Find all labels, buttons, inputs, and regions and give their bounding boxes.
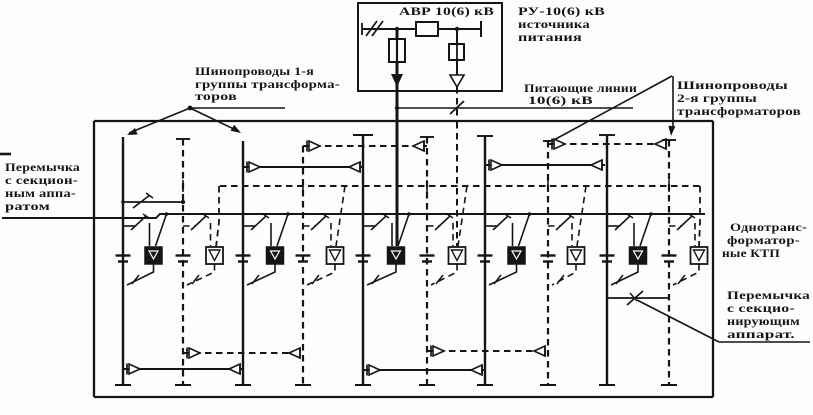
section jumper J2 with switch bbox=[608, 291, 668, 305]
label АВР 10(6) кВ bbox=[399, 4, 494, 18]
LV link below T4 bbox=[307, 264, 335, 285]
svg-text:ратом: ратом bbox=[5, 199, 50, 213]
termination bars riser 4 bbox=[296, 256, 311, 262]
switch arm unit 8 bbox=[548, 214, 574, 246]
busbar run group2 right (dashed) bbox=[548, 139, 669, 150]
svg-text:Шинопроводы 1-я: Шинопроводы 1-я bbox=[195, 64, 314, 78]
feeder 2 drop (dashed) bbox=[456, 87, 458, 246]
transformer T6 (outline) bbox=[449, 247, 466, 264]
termination bars riser 10 bbox=[662, 256, 677, 262]
tie drop to transformer 7 bbox=[519, 212, 532, 246]
feeder 2 drop upper bbox=[456, 29, 458, 44]
stray dash left margin bbox=[0, 153, 11, 156]
dashed group-2 tie line bbox=[220, 185, 700, 187]
node at feeder 1 tap bbox=[395, 27, 399, 31]
svg-text:Шинопроводы: Шинопроводы bbox=[677, 78, 789, 92]
svg-text:2-я группы: 2-я группы bbox=[677, 91, 758, 105]
svg-text:Перемычка: Перемычка bbox=[727, 288, 810, 302]
transformer T8 (outline) bbox=[568, 247, 585, 264]
dashed tie stub at riser 10 bbox=[668, 180, 670, 192]
dashed tie stub at riser 8 bbox=[547, 180, 549, 192]
transformer T5 (closed KTP, filled) bbox=[388, 247, 405, 264]
termination bars riser 2 bbox=[176, 256, 191, 262]
termination bars riser 1 bbox=[116, 256, 131, 262]
section jumper J1 with switch bbox=[121, 193, 185, 208]
bottom busbar run solid right bbox=[363, 365, 485, 376]
riser 9 top T-bar bbox=[599, 134, 615, 136]
dashed tie drop to transformer 6 bbox=[458, 186, 467, 246]
dashed tie corner to KTP-2 bbox=[216, 186, 219, 247]
switch arm unit 9 bbox=[607, 214, 634, 246]
feeder 1 fuse bbox=[389, 39, 405, 62]
leader diagonal to section switch bbox=[637, 300, 719, 342]
label Питающие линии 10(6) кВ bbox=[524, 81, 637, 107]
switch arm unit 7 bbox=[485, 214, 513, 246]
main switchgear enclosure frame bbox=[94, 121, 713, 397]
svg-text:с секцион-: с секцион- bbox=[5, 173, 78, 187]
supply hatch mark bbox=[362, 21, 383, 36]
termination bars riser 5 bbox=[356, 256, 371, 262]
label Шинопроводы 1-й группы трансформаторов bbox=[195, 64, 340, 103]
riser 10 (dashed) x=669 bbox=[668, 140, 670, 385]
LV link below T7 bbox=[489, 264, 517, 285]
termination bars riser 3 bbox=[236, 256, 251, 262]
riser 6 top T-bar bbox=[420, 136, 434, 138]
leader line group-1 label bbox=[188, 106, 285, 111]
riser 5 (solid) x=363 bbox=[362, 135, 364, 385]
busbar run group2 left (dashed) bbox=[303, 141, 427, 152]
label Однотрансформаторные КТП bbox=[722, 220, 807, 260]
leader arrow to dashed riser 10 bbox=[668, 76, 675, 136]
long tie line (перемычка) solid bbox=[2, 214, 705, 218]
dashed tie drop to transformer 4 bbox=[336, 186, 345, 246]
svg-text:торов: торов bbox=[195, 89, 237, 103]
riser 2 bottom T-bar bbox=[175, 384, 191, 386]
riser 4 (dashed) x=303 bbox=[302, 146, 304, 385]
bottom busbar run dashed right bbox=[427, 346, 548, 357]
leader arrow to riser 1 bbox=[127, 108, 190, 135]
dashed tie corner to KTP-10 bbox=[699, 186, 700, 247]
dashed tie stub at riser 4 bbox=[302, 180, 304, 192]
dashed tie drop to transformer 8 bbox=[577, 186, 586, 246]
LV link below T9 bbox=[611, 264, 638, 285]
svg-text:источника: источника bbox=[518, 17, 590, 31]
tie drop to transformer 3 bbox=[277, 212, 290, 246]
LV link below T3 bbox=[247, 264, 275, 285]
switch arm unit 4 bbox=[303, 214, 331, 246]
LV link below T5 bbox=[367, 264, 396, 285]
feeder 2 fuse bbox=[449, 44, 464, 60]
svg-text:аппарат.: аппарат. bbox=[727, 327, 795, 341]
switch arm unit 5 bbox=[363, 214, 392, 246]
LV link below T2 bbox=[187, 264, 215, 285]
svg-text:с секцио-: с секцио- bbox=[727, 301, 795, 315]
switch slash on feeder 2 bbox=[450, 101, 464, 114]
tie contactor rectangle bbox=[416, 22, 438, 36]
node at feeder 2 tap bbox=[455, 27, 459, 31]
riser 3 (solid) x=243 bbox=[242, 141, 244, 385]
riser 8 (dashed) x=548 bbox=[547, 141, 549, 385]
transformer T10 (outline) bbox=[691, 247, 708, 264]
termination bars riser 6 bbox=[420, 256, 435, 262]
riser 3 bottom T-bar bbox=[235, 384, 251, 386]
transformer T9 (closed KTP, filled) bbox=[630, 247, 647, 264]
riser 2 (dashed) x=183 bbox=[182, 139, 184, 385]
label РУ-10(6) кВ источника питания bbox=[518, 4, 605, 44]
bus right terminal bar bbox=[480, 21, 482, 37]
busbar run group1 left (с arrows) bbox=[243, 162, 363, 173]
svg-text:нирующим: нирующим bbox=[727, 314, 800, 328]
feeder 1 arrow bbox=[391, 74, 403, 87]
switch arm unit 2 bbox=[183, 214, 211, 246]
svg-text:питания: питания bbox=[518, 30, 582, 44]
transformer T1 (closed KTP, filled) bbox=[145, 247, 162, 264]
transformer T4 (outline) bbox=[327, 247, 344, 264]
riser 10 bottom T-bar bbox=[661, 384, 677, 386]
riser 4 bottom T-bar bbox=[295, 384, 311, 386]
LV link below T1 bbox=[127, 264, 154, 285]
svg-text:Перемычка: Перемычка bbox=[5, 160, 80, 174]
tie drop to transformer 9 bbox=[640, 212, 653, 246]
riser 7 top T-bar bbox=[477, 135, 493, 137]
switch arm unit 6 bbox=[427, 214, 453, 246]
LV link below T6 bbox=[431, 264, 457, 285]
transformer T7 (closed KTP, filled) bbox=[508, 247, 525, 264]
switch arm unit 1 bbox=[123, 214, 150, 246]
leader line feeders label bbox=[395, 106, 633, 110]
leader arrow to riser 3 bbox=[190, 108, 241, 133]
svg-text:10(6) кВ: 10(6) кВ bbox=[528, 93, 593, 107]
riser 5 top T-bar bbox=[353, 134, 373, 136]
transformer T3 (closed KTP, filled) bbox=[267, 247, 284, 264]
busbar run group1 right bbox=[485, 160, 605, 171]
svg-text:АВР 10(6) кВ: АВР 10(6) кВ bbox=[399, 4, 494, 18]
termination bars riser 7 bbox=[478, 256, 493, 262]
leader diagonal to dashed bus arrow bbox=[552, 76, 672, 141]
riser 1 (solid) x=123 bbox=[122, 137, 124, 385]
svg-text:трансформаторов: трансформаторов bbox=[677, 104, 801, 118]
riser 2 top T-bar bbox=[176, 138, 190, 140]
riser 5 bottom T-bar bbox=[355, 384, 371, 386]
riser 7 bottom T-bar bbox=[477, 384, 493, 386]
leader underline right label bbox=[719, 341, 810, 343]
label Перемычка с секционирующим аппаратом bbox=[727, 288, 810, 341]
svg-text:форматор-: форматор- bbox=[727, 233, 800, 247]
bottom busbar run dashed left bbox=[183, 348, 303, 359]
riser 9 bottom T-bar bbox=[599, 384, 615, 386]
riser 6 (dashed) x=427 bbox=[426, 137, 428, 385]
bus inside ABP box bbox=[362, 28, 481, 30]
svg-text:ным аппа-: ным аппа- bbox=[5, 186, 76, 200]
feeder 2 open arrow bbox=[450, 60, 464, 87]
ABP (АВР) cabinet box bbox=[358, 3, 502, 91]
svg-text:Однотранс-: Однотранс- bbox=[730, 220, 807, 234]
riser 1 bottom T-bar bbox=[115, 384, 131, 386]
bottom busbar run solid left bbox=[123, 364, 243, 375]
svg-text:РУ-10(6) кВ: РУ-10(6) кВ bbox=[518, 4, 605, 18]
LV link below T10 bbox=[673, 264, 699, 285]
switch arm unit 3 bbox=[243, 214, 271, 246]
riser 9 (solid) x=607 bbox=[606, 135, 608, 385]
riser 10 top T-bar bbox=[662, 139, 676, 141]
dashed tie stub at riser 2 bbox=[182, 180, 184, 192]
tie drop to transformer 5 bbox=[398, 212, 411, 246]
riser 6 bottom T-bar bbox=[419, 384, 435, 386]
riser 8 bottom T-bar bbox=[540, 384, 556, 386]
label Шинопроводы 2-й группы трансформаторов bbox=[677, 78, 801, 118]
termination bars riser 9 bbox=[600, 256, 615, 262]
switch arm unit 10 bbox=[669, 214, 695, 246]
dashed tie stub at riser 6 bbox=[426, 180, 428, 192]
tie drop to transformer 1 bbox=[156, 212, 169, 246]
svg-text:ные КТП: ные КТП bbox=[722, 246, 781, 260]
riser 8 top T-bar bbox=[543, 140, 553, 142]
termination bars riser 8 bbox=[541, 256, 556, 262]
feeder 1 drop (solid) bbox=[396, 29, 399, 246]
transformer T2 (outline) bbox=[206, 247, 223, 264]
LV link below T8 bbox=[552, 264, 576, 285]
label Перемычка с секционным аппаратом bbox=[5, 160, 80, 213]
riser 7 (solid) x=485 bbox=[484, 136, 486, 385]
